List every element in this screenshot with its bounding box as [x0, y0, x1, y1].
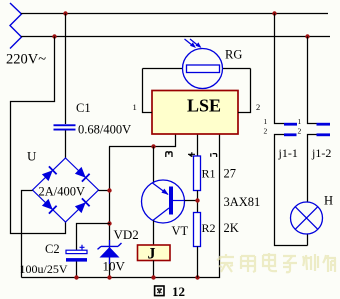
photoresistor RG left wire	[143, 68, 183, 70]
wire C2 top connection	[77, 224, 111, 251]
svg-text:LSE: LSE	[187, 96, 221, 116]
wire AC2 path from second rail to bridge bottom vertex	[11, 37, 66, 234]
wire base to divider	[185, 200, 198, 202]
svg-text:2A/400V: 2A/400V	[39, 185, 86, 199]
wire C2 bottom lead	[76, 262, 78, 278]
photoresistor RG body	[187, 65, 220, 73]
pin 5 label (rotated)	[211, 153, 217, 157]
wire j1-2 to lamp	[308, 135, 317, 203]
diode D-lower-left of bridge	[42, 199, 57, 214]
wire j1-1 drop from top rail	[275, 14, 285, 124]
wire second AC rail	[21, 36, 330, 38]
capacitor C2 electrolytic	[66, 245, 87, 262]
wire j1-1 bottom lead	[275, 135, 308, 246]
node DC+ / C2 top	[107, 221, 111, 225]
svg-text:1: 1	[133, 102, 137, 112]
transistor VT emitter with arrow	[153, 183, 169, 195]
node junction second rail / j1-2 branch	[305, 34, 309, 38]
wire LSE pin3 feed	[109, 134, 176, 147]
wire DC+ vertical rail	[109, 147, 111, 278]
svg-text:3AX81: 3AX81	[224, 195, 261, 209]
svg-text:RG: RG	[225, 48, 242, 62]
node junction top rail / j1-1 branch	[272, 11, 276, 15]
wire pin4 to R1	[197, 134, 199, 156]
svg-text:2: 2	[264, 127, 268, 136]
pin 4 label (rotated)	[188, 152, 195, 157]
diode D-lower-right of bridge	[75, 198, 90, 213]
svg-text:VT: VT	[172, 224, 189, 238]
svg-text:H: H	[324, 194, 333, 208]
diode D-upper-left of bridge	[42, 166, 57, 181]
node C2 / ground rail	[74, 275, 78, 279]
transistor VT circle	[142, 180, 185, 223]
capacitor C1	[54, 124, 76, 130]
node junction second rail / AC2 branch	[52, 34, 56, 38]
wire emitter drop	[153, 147, 155, 183]
node junction top rail / C1 branch	[63, 11, 67, 15]
svg-text:27: 27	[224, 167, 237, 181]
wire C1 lower lead to bridge	[65, 131, 67, 159]
svg-text:10V: 10V	[103, 259, 126, 274]
zener diode VD2	[98, 240, 122, 264]
svg-text:2: 2	[256, 102, 260, 112]
photoresistor RG circle	[183, 49, 223, 89]
relay contact j1-1	[284, 123, 297, 136]
caption 图 12	[155, 284, 185, 299]
relay coil J box	[138, 245, 171, 261]
wire R2 bottom lead	[197, 247, 199, 278]
wire J bottom lead	[153, 261, 155, 278]
resistor R1	[194, 156, 201, 191]
svg-text:R2: R2	[202, 221, 216, 235]
photoresistor RG right wire	[223, 68, 251, 70]
svg-text:C1: C1	[76, 101, 91, 115]
diode D-upper-right of bridge	[75, 167, 90, 182]
svg-text:2K: 2K	[224, 221, 239, 235]
node DC+ / bridge output	[107, 188, 111, 192]
svg-text:R1: R1	[202, 167, 216, 181]
svg-text:J: J	[148, 246, 156, 263]
node base / divider	[195, 198, 199, 202]
svg-text:220V~: 220V~	[6, 52, 46, 68]
wire lamp bottom lead	[307, 235, 309, 246]
wire R1-R2 link	[197, 191, 199, 213]
transistor VT base lead	[173, 200, 185, 202]
bridge rectifier U diamond outline	[33, 158, 99, 222]
svg-text:j1-1: j1-1	[278, 146, 298, 160]
IC LSE box	[152, 91, 238, 135]
transistor VT collector lead	[153, 208, 169, 221]
svg-text:2: 2	[298, 127, 302, 136]
transistor VT base bar	[169, 187, 173, 215]
lamp H cross	[295, 207, 318, 230]
wire C1 upper lead	[65, 14, 67, 125]
svg-text:j1-2: j1-2	[311, 146, 331, 160]
node R2 / ground rail	[195, 275, 199, 279]
node VD2 / ground rail	[107, 275, 111, 279]
wire DC- : bridge left vertex to ground rail	[22, 191, 33, 278]
node pin3 wire / emitter branch	[151, 144, 155, 148]
pin 3 label (rotated)	[166, 152, 172, 157]
svg-text:VD2: VD2	[114, 227, 139, 242]
svg-text:100u/25V: 100u/25V	[20, 262, 68, 276]
wire j1-2 drop from second rail	[308, 37, 317, 124]
watermark 实用电子制作	[217, 253, 336, 272]
pin 2 wire of LSE	[238, 69, 251, 113]
wire bottom ground rail	[22, 134, 220, 278]
lamp H circle	[291, 202, 323, 234]
svg-text:1: 1	[264, 117, 268, 126]
wire collector drop	[153, 221, 155, 246]
relay contact j1-2	[317, 123, 331, 136]
wire top AC rail	[21, 13, 328, 15]
RG light arrows	[185, 39, 202, 48]
pin 1 wire of LSE	[143, 69, 153, 113]
resistor R2	[194, 213, 201, 247]
AC source 220V zigzag symbol	[10, 3, 22, 49]
svg-text:0.68/400V: 0.68/400V	[78, 123, 131, 137]
wire DC+ : bridge right vertex stub	[99, 190, 111, 192]
node J / ground rail	[151, 275, 155, 279]
svg-text:C2: C2	[45, 242, 60, 256]
svg-text:1: 1	[298, 117, 302, 126]
svg-text:12: 12	[172, 284, 185, 299]
svg-text:U: U	[27, 149, 37, 164]
